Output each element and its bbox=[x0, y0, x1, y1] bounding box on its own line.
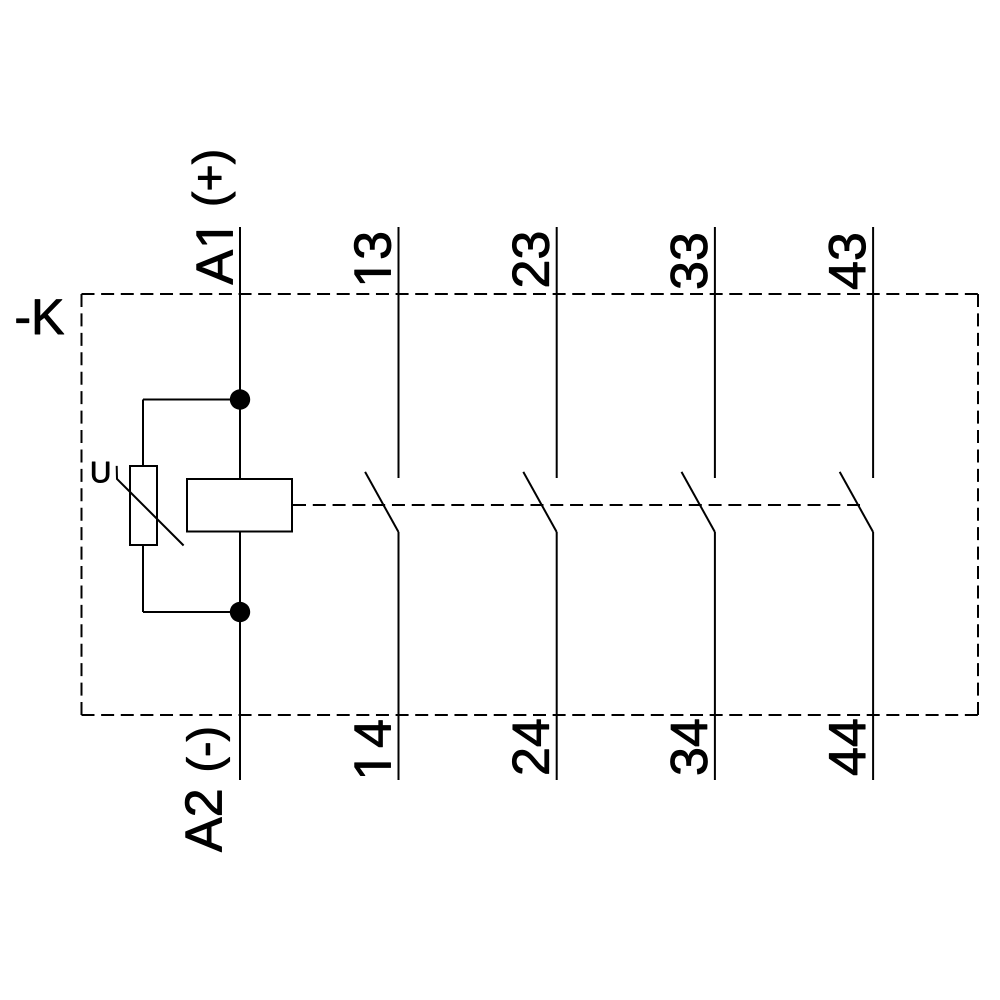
pin label 13 bbox=[354, 233, 391, 282]
contact NO 43-44 upper wire bbox=[872, 227, 874, 478]
wire varistor bottom branch bbox=[143, 545, 240, 612]
enclosure dashed outline of contactor -K bbox=[82, 294, 979, 715]
varistor body (surge suppressor) bbox=[130, 466, 157, 545]
pin label 43 bbox=[829, 234, 866, 288]
pin label 23 bbox=[512, 233, 549, 286]
contact NO 23-24 lower wire bbox=[556, 532, 558, 780]
terminal label A2 (-) bbox=[185, 729, 229, 852]
mechanical linkage dashed line bbox=[293, 504, 860, 506]
contact NO 33-34 blade bbox=[682, 472, 715, 532]
pin label 24 bbox=[512, 720, 548, 774]
wire coil terminal A1 (top) bbox=[239, 227, 241, 479]
contact NO 23-24 blade bbox=[523, 472, 556, 532]
contact NO 23-24 upper wire bbox=[556, 227, 558, 478]
device designator -K bbox=[17, 300, 64, 334]
contact NO 33-34 lower wire bbox=[714, 532, 716, 780]
pin label 44 bbox=[829, 720, 865, 775]
relay coil K body bbox=[187, 479, 292, 532]
contact NO 13-14 lower wire bbox=[398, 532, 400, 780]
contact NO 43-44 lower wire bbox=[872, 532, 874, 780]
wire coil terminal A2 (bottom) bbox=[239, 532, 241, 781]
contact NO 13-14 upper wire bbox=[398, 227, 400, 478]
contact NO 13-14 blade bbox=[365, 472, 398, 532]
varistor label U bbox=[92, 462, 109, 483]
contact NO 33-34 upper wire bbox=[714, 227, 716, 478]
pin label 33 bbox=[671, 234, 708, 288]
varistor diagonal stroke bbox=[117, 466, 184, 546]
pin label 34 bbox=[671, 720, 708, 774]
wire varistor top branch bbox=[143, 400, 240, 467]
contact NO 43-44 blade bbox=[840, 472, 873, 532]
pin label 14 bbox=[355, 721, 391, 776]
node junction top (A1 to varistor) bbox=[230, 389, 250, 409]
terminal label A1 (+) bbox=[192, 152, 235, 285]
node junction bottom (A2 to varistor) bbox=[230, 602, 250, 622]
